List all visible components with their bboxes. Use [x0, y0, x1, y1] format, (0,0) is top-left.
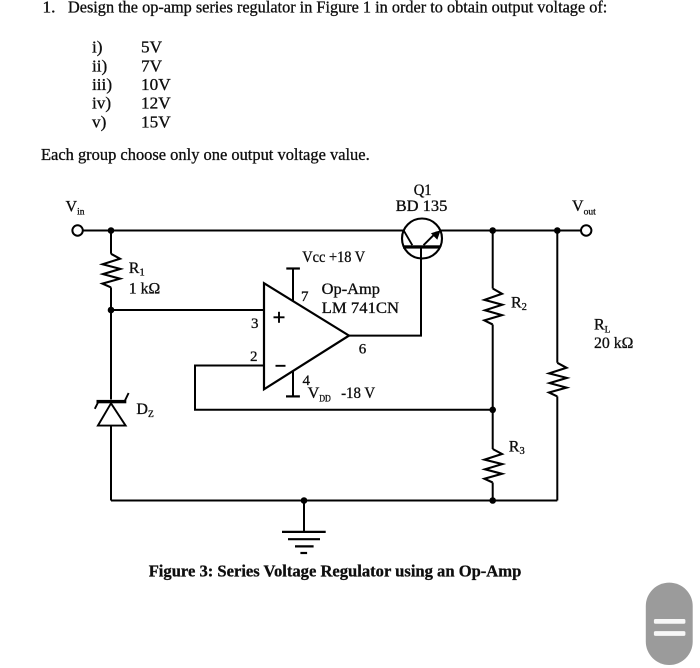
svg-text:Each group choose only one out: Each group choose only one output voltag…	[41, 145, 370, 164]
svg-text:5V: 5V	[141, 38, 163, 57]
svg-text:7: 7	[301, 289, 309, 305]
svg-text:3: 3	[251, 316, 259, 332]
svg-text:7V: 7V	[141, 56, 163, 75]
svg-text:iv): iv)	[92, 94, 111, 113]
svg-text:iii): iii)	[92, 75, 112, 94]
svg-text:i): i)	[92, 38, 103, 57]
svg-text:LM 741CN: LM 741CN	[322, 300, 400, 317]
svg-text:4: 4	[303, 373, 311, 389]
svg-text:Op-Amp: Op-Amp	[322, 281, 380, 298]
svg-text:-18 V: -18 V	[341, 385, 376, 402]
svg-text:BD 135: BD 135	[396, 198, 448, 215]
svg-text:1 kΩ: 1 kΩ	[129, 280, 161, 297]
svg-text:10V: 10V	[141, 75, 171, 94]
svg-text:Design the op-amp series regul: Design the op-amp series regulator in Fi…	[68, 0, 607, 16]
svg-text:Figure 3: Series Voltage Regu: Figure 3: Series Voltage Regulator using…	[149, 561, 522, 580]
svg-text:20 kΩ: 20 kΩ	[594, 335, 634, 352]
svg-text:12V: 12V	[141, 94, 171, 113]
svg-text:v): v)	[92, 112, 106, 131]
svg-text:Vcc +18 V: Vcc +18 V	[302, 249, 365, 266]
svg-text:2: 2	[250, 349, 258, 365]
svg-text:ii): ii)	[92, 56, 107, 75]
svg-text:6: 6	[359, 342, 367, 358]
svg-text:Q1: Q1	[414, 182, 432, 199]
svg-text:1.: 1.	[43, 0, 56, 16]
svg-text:15V: 15V	[141, 112, 171, 131]
